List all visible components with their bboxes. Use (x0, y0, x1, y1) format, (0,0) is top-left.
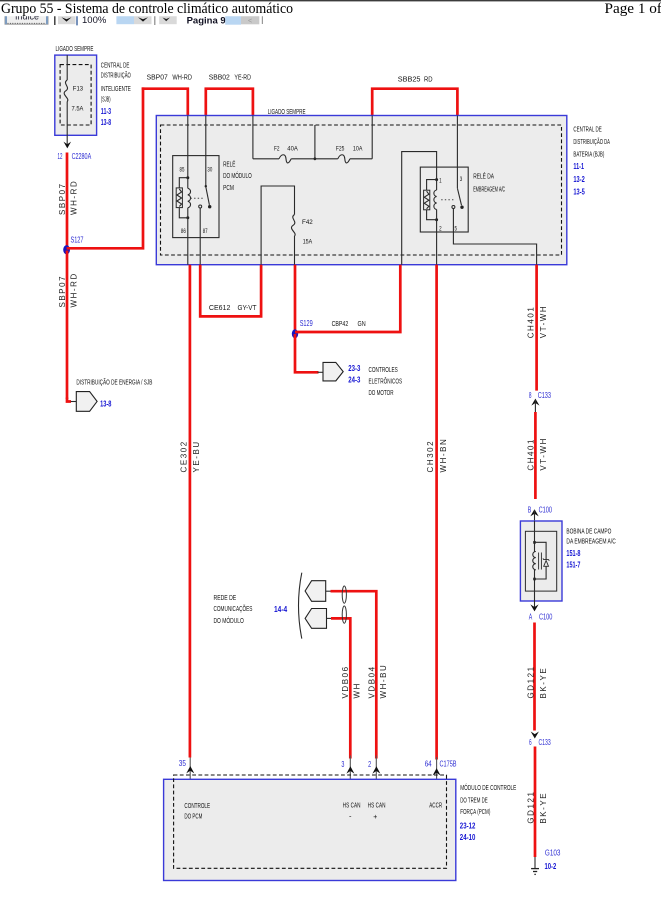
svg-text:S127: S127 (71, 236, 84, 245)
svg-text:3: 3 (341, 760, 344, 769)
wire SBB25 into pin 3 (456, 116, 458, 189)
svg-text:13-8: 13-8 (100, 398, 111, 408)
svg-text:10-2: 10-2 (545, 861, 557, 871)
svg-text:86: 86 (181, 228, 186, 235)
svg-text:REDE DE: REDE DE (214, 593, 237, 602)
svg-text:40A: 40A (287, 146, 298, 153)
svg-text:CE612: CE612 (209, 303, 231, 312)
svg-text:SBP07: SBP07 (58, 275, 67, 308)
svg-text:SBB02: SBB02 (209, 72, 230, 81)
svg-text:8: 8 (529, 391, 532, 400)
svg-text:CBP42: CBP42 (332, 319, 349, 328)
svg-text:EMBREAGEM A/C: EMBREAGEM A/C (473, 184, 505, 193)
svg-text:RELÉ DA: RELÉ DA (473, 171, 494, 180)
fuse F2 40A (279, 155, 291, 163)
svg-text:CH401: CH401 (526, 306, 535, 339)
svg-text:F25: F25 (336, 146, 345, 153)
connector 6 C133 (531, 732, 539, 739)
svg-text:LIGADO SEMPRE: LIGADO SEMPRE (56, 44, 94, 53)
svg-text:DISTRIBUIÇÃO: DISTRIBUIÇÃO (101, 71, 131, 80)
svg-text:Grupo 55 - Sistema de controle: Grupo 55 - Sistema de controle climático… (1, 0, 293, 17)
svg-text:C100: C100 (539, 505, 553, 514)
connector A C100 (534, 601, 536, 610)
svg-text:BK-YE: BK-YE (539, 667, 548, 699)
svg-text:SBP07: SBP07 (58, 182, 67, 215)
svg-text:DO TREM DE: DO TREM DE (460, 795, 488, 804)
svg-text:SBP07: SBP07 (147, 72, 168, 81)
svg-text:100%: 100% (82, 15, 107, 26)
svg-text:GN: GN (358, 319, 366, 328)
splice S129 (292, 329, 298, 338)
svg-text:WH-BN: WH-BN (439, 438, 448, 473)
svg-text:SBB25: SBB25 (398, 75, 421, 84)
wire pin 5 to CH401 (453, 209, 536, 265)
svg-text:ACCR: ACCR (429, 801, 442, 810)
wire SBP07 into coil (187, 116, 189, 178)
fuse F13 7.5A (64, 80, 68, 102)
wire F42 out to S129 (294, 265, 297, 333)
svg-text:WH-RD: WH-RD (172, 72, 192, 81)
svg-text:151-8: 151-8 (566, 548, 580, 558)
wire SBP07 WH-RD upper (66, 153, 69, 250)
svg-text:24-3: 24-3 (348, 375, 360, 385)
twisted pair symbol (342, 586, 346, 603)
svg-text:INTELIGENTE: INTELIGENTE (101, 84, 131, 93)
svg-text:11-3: 11-3 (101, 106, 111, 116)
svg-text:HS CAN: HS CAN (368, 801, 386, 810)
wire VDB04 WH-BU to pin 2 (331, 591, 377, 758)
svg-text:RELÉ: RELÉ (223, 160, 235, 169)
svg-text:FORÇA (PCM): FORÇA (PCM) (460, 807, 490, 816)
svg-text:13-8: 13-8 (101, 117, 111, 127)
svg-text:GY-VT: GY-VT (238, 303, 257, 312)
svg-text:Pagina 9: Pagina 9 (187, 16, 226, 27)
svg-text:CONTROLE: CONTROLE (184, 801, 210, 810)
svg-text:BOBINA DE CAMPO: BOBINA DE CAMPO (566, 526, 611, 535)
header (0, 0, 661, 1)
svg-text:CENTRAL DE: CENTRAL DE (101, 60, 130, 69)
svg-text:COMUNICAÇÕES: COMUNICAÇÕES (214, 604, 253, 613)
svg-text:13-2: 13-2 (573, 174, 585, 184)
ground G103 (534, 857, 536, 868)
svg-text:(SJB): (SJB) (101, 95, 111, 104)
relay K2 coil (435, 178, 438, 181)
relay K1 switch (205, 185, 207, 187)
svg-text:MÓDULO DE CONTROLE: MÓDULO DE CONTROLE (460, 783, 516, 792)
svg-text:ELETRÔNICOS: ELETRÔNICOS (369, 377, 403, 386)
svg-text:C133: C133 (538, 391, 552, 400)
svg-text:64: 64 (425, 760, 432, 769)
svg-text:B: B (528, 505, 532, 514)
svg-text:2: 2 (439, 226, 442, 233)
svg-text:C133: C133 (539, 738, 552, 747)
svg-text:F2: F2 (274, 146, 280, 153)
svg-text:CH302: CH302 (426, 440, 435, 473)
svg-text:13-5: 13-5 (573, 186, 585, 196)
relay K1 RELE DO MODULO PCM (173, 156, 219, 238)
wire pin1 loop to CBP42 (402, 152, 437, 265)
svg-text:14-4: 14-4 (274, 604, 287, 614)
svg-text:1: 1 (439, 177, 442, 184)
wire SBP07 WH-RD lower (66, 251, 69, 400)
wire pin 87 down (199, 208, 201, 265)
wire pin87 jog up to F42 (261, 186, 294, 265)
relay K2 switch (457, 188, 461, 205)
brace (299, 573, 302, 639)
svg-text:6: 6 (529, 738, 532, 747)
svg-text:VDB06: VDB06 (341, 665, 350, 698)
corner to SJB power connector (67, 398, 71, 402)
svg-text:S129: S129 (300, 319, 313, 328)
svg-text:A: A (529, 612, 533, 621)
svg-text:CONTROLES: CONTROLES (369, 365, 398, 374)
connector 12 C2280A (64, 142, 72, 149)
svg-text:C100: C100 (539, 612, 553, 621)
svg-text:85: 85 (180, 167, 185, 174)
svg-text:15A: 15A (303, 239, 313, 246)
svg-text:5: 5 (455, 226, 458, 233)
svg-text:WH-BU: WH-BU (379, 664, 388, 699)
connector CONTROLES ELETRONICOS DO MOTOR (323, 362, 343, 381)
wire GD121 BK-YE upper (533, 623, 536, 731)
wire VDB06 WH to pin 3 (331, 618, 350, 758)
svg-text:YE-BU: YE-BU (192, 440, 201, 472)
relay K2 resistor (427, 180, 437, 191)
pin 64 stem/arrow + C175B (436, 757, 438, 788)
svg-text:2: 2 (368, 760, 371, 769)
svg-text:12: 12 (58, 152, 63, 161)
wire CH401 VT-WH lower (534, 412, 537, 499)
wire SBB02 into pin 30 (205, 116, 207, 186)
svg-text:WH: WH (353, 682, 362, 698)
svg-text:35: 35 (179, 759, 187, 768)
svg-text:VDB04: VDB04 (368, 665, 377, 698)
fusebox SJB (55, 55, 97, 135)
svg-text:DO MÓDULO: DO MÓDULO (214, 616, 245, 625)
wire SBB25 top run (372, 89, 457, 116)
svg-text:Page 1 of 2: Page 1 of 2 (605, 0, 661, 17)
connector HS-CAN - pentagon (305, 609, 326, 629)
wire SBP07 top run (142, 89, 188, 116)
svg-text:DO MÓDULO: DO MÓDULO (223, 171, 252, 180)
pin 2 stem/arrow (375, 756, 377, 789)
svg-text:24-10: 24-10 (460, 832, 476, 842)
svg-text:RD: RD (424, 75, 433, 84)
svg-text:F42: F42 (302, 219, 313, 226)
svg-text:BATERIA (BJB): BATERIA (BJB) (573, 150, 604, 159)
svg-text:+: + (373, 812, 377, 821)
svg-text:11-1: 11-1 (573, 161, 584, 171)
svg-text:F13: F13 (73, 86, 83, 93)
svg-text:WH-RD: WH-RD (70, 180, 79, 215)
relay K2 RELE DA EMBREAGEM A/C (420, 167, 468, 232)
component BOBINA DE CAMPO DA EMBREAGEM A/C (520, 521, 562, 601)
wire CH302 WH-BN (435, 265, 438, 760)
wire CBP42 GN (295, 265, 400, 332)
fuse bus feeds (252, 116, 254, 159)
svg-text:DO MOTOR: DO MOTOR (369, 388, 394, 397)
connector HS-CAN + pentagon (305, 581, 326, 602)
svg-text:BK-YE: BK-YE (539, 792, 548, 824)
module PCM box (164, 779, 456, 880)
svg-text:PCM: PCM (223, 183, 234, 192)
svg-text:7.5A: 7.5A (72, 106, 84, 113)
coil L1 (533, 541, 536, 544)
svg-text:YE-RD: YE-RD (234, 72, 251, 81)
connector DISTRIBUICAO 13-8 (76, 392, 97, 412)
svg-text:C2280A: C2280A (72, 152, 92, 161)
stem below SJB (66, 135, 68, 147)
diode D1 (543, 558, 549, 560)
svg-text:LIGADO SEMPRE: LIGADO SEMPRE (268, 107, 306, 116)
fuse bus (253, 158, 279, 160)
power distribution box BJB (156, 116, 567, 265)
svg-text:DISTRIBUIÇÃO DA: DISTRIBUIÇÃO DA (573, 137, 610, 146)
wire CH401 VT-WH upper (535, 265, 538, 391)
svg-text:G103: G103 (545, 849, 561, 858)
svg-text:151-7: 151-7 (566, 560, 580, 570)
relay K1 resistor (179, 178, 188, 188)
svg-text:23-12: 23-12 (460, 820, 476, 830)
wire pin 86 down (187, 218, 189, 265)
svg-text:WH-RD: WH-RD (70, 272, 79, 307)
svg-text:C175B: C175B (440, 760, 457, 769)
wire CE302 YE-BU (189, 265, 192, 758)
wire CE612 GY-VT jog (200, 265, 261, 317)
pin 3 stem/arrow (349, 756, 351, 789)
wire labels VDB06 WH (341, 665, 350, 698)
fuse F25 10A (338, 155, 350, 163)
relay K1 coil (186, 176, 189, 179)
wire pin 2 down (436, 220, 438, 265)
svg-text:GD121: GD121 (526, 790, 535, 823)
svg-text:23-3: 23-3 (348, 363, 360, 373)
branch to engine controls (295, 334, 319, 372)
svg-text:3: 3 (460, 176, 463, 183)
wire SBB02 top run (206, 89, 253, 116)
svg-text:VT-WH: VT-WH (539, 437, 548, 471)
svg-text:HS CAN: HS CAN (343, 801, 361, 810)
svg-text:CH401: CH401 (526, 438, 535, 471)
wire through SJB (66, 55, 68, 80)
svg-text:DISTRIBUIÇÃO DE ENERGIA / SJB: DISTRIBUIÇÃO DE ENERGIA / SJB (76, 378, 152, 387)
splice S127 (63, 245, 70, 254)
svg-text:CE302: CE302 (180, 440, 189, 472)
svg-text:CENTRAL DE: CENTRAL DE (573, 125, 601, 134)
svg-text:30: 30 (207, 167, 212, 174)
wire GD121 BK-YE lower (534, 747, 537, 858)
fuse F42 15A (291, 215, 295, 237)
svg-text:<: < (248, 18, 252, 25)
svg-text:87: 87 (203, 228, 208, 235)
svg-text:10A: 10A (353, 146, 363, 153)
wire labels VDB04 WH-BU (368, 665, 377, 698)
pin 35 stem/arrow (189, 758, 191, 789)
svg-text:DO PCM: DO PCM (184, 812, 202, 821)
wire S127 to riser (67, 87, 143, 248)
svg-text:GD121: GD121 (526, 665, 535, 698)
svg-text:VT-WH: VT-WH (539, 305, 548, 339)
svg-text:DA EMBREAGEM A/C: DA EMBREAGEM A/C (566, 537, 615, 546)
